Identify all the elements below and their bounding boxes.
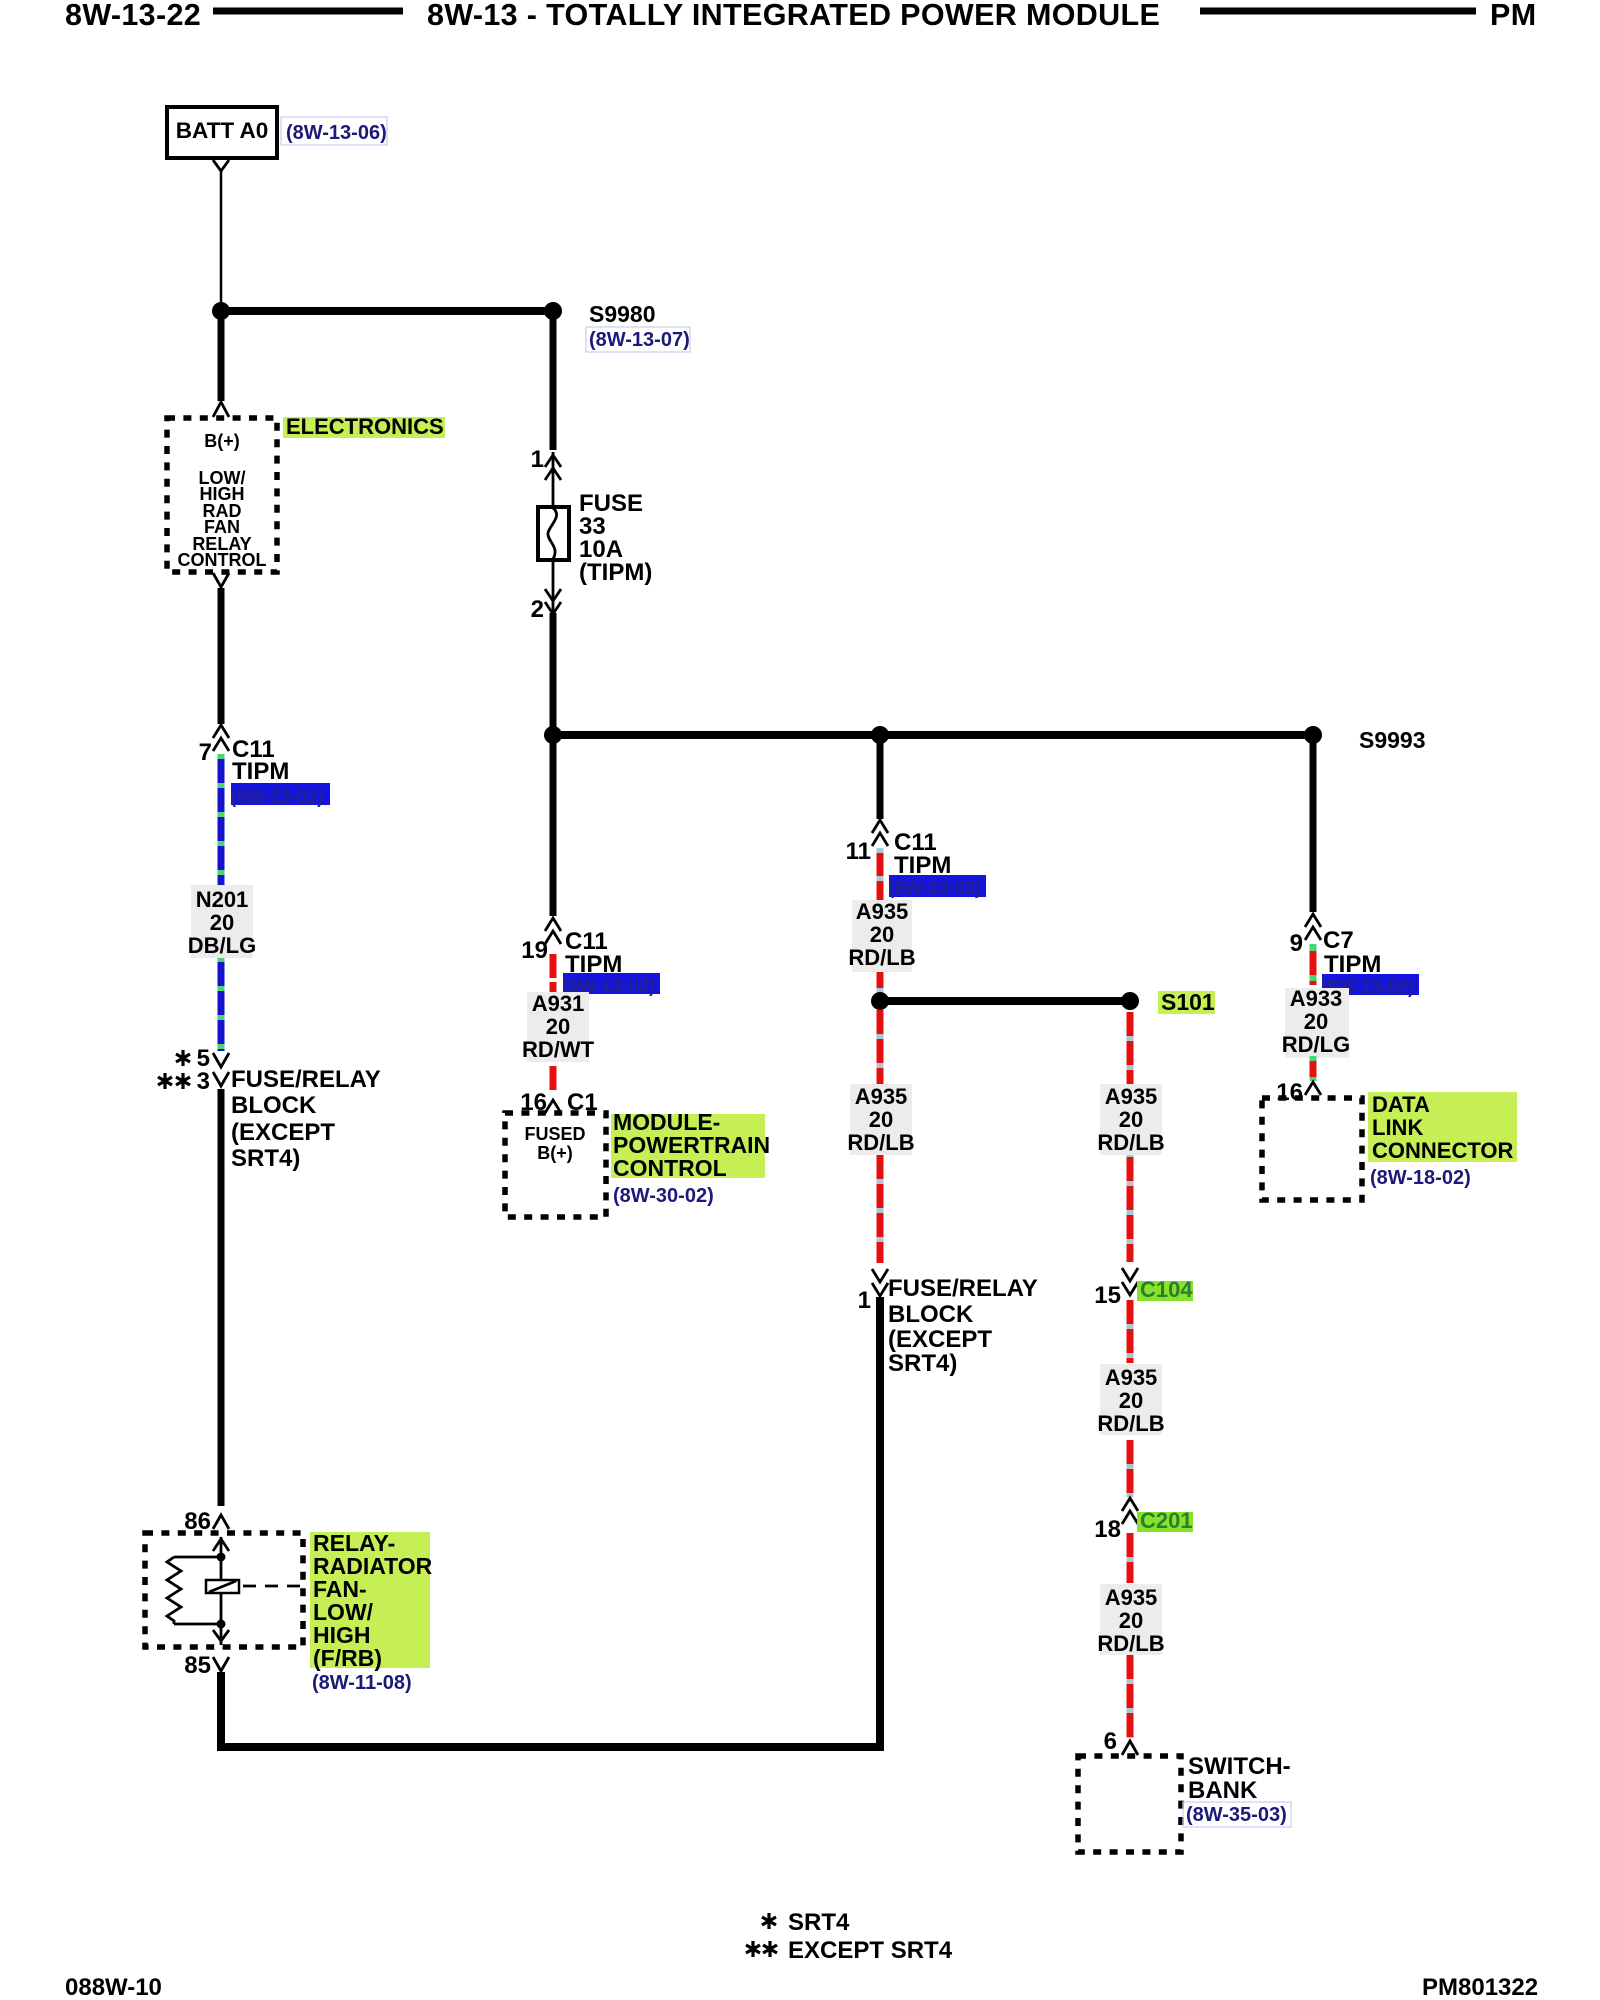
svg-text:BLOCK: BLOCK bbox=[231, 1092, 317, 1119]
label FUSE/RELAY BLOCK (EXCEPT SRT4) bbox=[888, 1275, 1038, 1377]
svg-text:A935: A935 bbox=[1105, 1365, 1158, 1390]
svg-text:20: 20 bbox=[1119, 1388, 1143, 1413]
svg-text:CONTROL: CONTROL bbox=[178, 550, 267, 570]
link badge (8W-13-02) bbox=[562, 973, 660, 996]
wire label A931 20 RD/WT bbox=[522, 991, 595, 1062]
wire N201 20 DB/LG bbox=[218, 754, 225, 1051]
svg-text:SRT4): SRT4) bbox=[231, 1145, 300, 1172]
svg-text:FUSED: FUSED bbox=[524, 1124, 585, 1144]
svg-text:BLOCK: BLOCK bbox=[888, 1301, 974, 1328]
svg-text:20: 20 bbox=[210, 910, 234, 935]
reference (8W-35-03) bbox=[1183, 1802, 1291, 1827]
svg-text:RD/LB: RD/LB bbox=[1097, 1411, 1164, 1436]
label SWITCH-BANK bbox=[1188, 1753, 1291, 1804]
chevron out of BATT box bbox=[213, 160, 229, 171]
svg-text:20: 20 bbox=[1304, 1009, 1328, 1034]
node splice S9980 bus bbox=[212, 302, 230, 320]
svg-text:C104: C104 bbox=[1140, 1277, 1193, 1302]
pin 2 bbox=[545, 560, 561, 614]
svg-text:RD/LB: RD/LB bbox=[848, 945, 915, 970]
chevron out of module bbox=[213, 573, 229, 587]
wire A935 C201 to switch bank bbox=[1127, 1533, 1134, 1583]
svg-text:A935: A935 bbox=[1105, 1084, 1158, 1109]
svg-text:TIPM: TIPM bbox=[1324, 951, 1381, 978]
fuse 33 symbol bbox=[538, 507, 569, 560]
svg-text:RD/LB: RD/LB bbox=[1097, 1130, 1164, 1155]
wire fuse/relay block to relay pin 86 bbox=[218, 1089, 225, 1506]
svg-text:1: 1 bbox=[858, 1287, 871, 1314]
svg-text:N201: N201 bbox=[196, 887, 249, 912]
relay internals bbox=[167, 1537, 303, 1645]
note * SRT4 bbox=[762, 1909, 850, 1936]
svg-text:B(+): B(+) bbox=[204, 431, 240, 451]
reference (8W-13-06) bbox=[281, 117, 387, 145]
svg-text:C201: C201 bbox=[1140, 1508, 1193, 1533]
module box DATA LINK CONNECTOR bbox=[1262, 1098, 1362, 1200]
pin 5 (SRT4) bbox=[176, 1045, 210, 1072]
svg-text:C7: C7 bbox=[1323, 927, 1354, 954]
node splice S9993 bus bbox=[544, 726, 1322, 744]
link badge (8W-13-02) bbox=[888, 875, 986, 898]
svg-text:18: 18 bbox=[1094, 1516, 1121, 1543]
svg-text:EXCEPT SRT4: EXCEPT SRT4 bbox=[788, 1937, 953, 1964]
svg-text:RD/WT: RD/WT bbox=[522, 1037, 595, 1062]
connector C201 pin 18 bbox=[1122, 1498, 1138, 1524]
svg-text:20: 20 bbox=[870, 922, 894, 947]
svg-text:RD/LB: RD/LB bbox=[1097, 1631, 1164, 1656]
svg-text:15: 15 bbox=[1094, 1282, 1121, 1309]
svg-text:A931: A931 bbox=[532, 991, 585, 1016]
svg-text:8W-13 - TOTALLY INTEGRATED POW: 8W-13 - TOTALLY INTEGRATED POWER MODULE bbox=[427, 0, 1160, 32]
svg-text:S9980: S9980 bbox=[589, 301, 656, 327]
label FUSE 33 10A (TIPM) bbox=[579, 490, 652, 586]
relay box bbox=[145, 1533, 303, 1647]
svg-text:2: 2 bbox=[531, 596, 544, 623]
svg-text:(8W-13-06): (8W-13-06) bbox=[286, 122, 387, 144]
svg-text:ELECTRONICS: ELECTRONICS bbox=[286, 414, 444, 439]
svg-text:8W-13-22: 8W-13-22 bbox=[65, 0, 201, 32]
wire from BATT to splice S9980 bbox=[220, 171, 223, 303]
wire continues to pin 6 bbox=[1127, 1655, 1134, 1738]
svg-text:088W-10: 088W-10 bbox=[65, 1974, 162, 2000]
svg-text:20: 20 bbox=[869, 1107, 893, 1132]
connector fuse/relay block pin 1 bbox=[872, 1269, 888, 1296]
svg-text:B(+): B(+) bbox=[537, 1143, 573, 1163]
wire label A935 20 RD/LB bbox=[1097, 1084, 1164, 1155]
svg-text:(8W-18-02): (8W-18-02) bbox=[1370, 1167, 1471, 1189]
connector C104 pin 15 bbox=[1122, 1268, 1138, 1295]
wire to DLC pin 16 bbox=[1310, 1056, 1317, 1081]
svg-text:85: 85 bbox=[184, 1652, 211, 1679]
svg-text:SRT4): SRT4) bbox=[888, 1350, 957, 1377]
svg-text:(8W-11-08): (8W-11-08) bbox=[312, 1672, 412, 1694]
svg-text:DB/LG: DB/LG bbox=[188, 933, 256, 958]
wire label A933 20 RD/LG bbox=[1282, 986, 1350, 1058]
wire S9993 to connector bbox=[550, 735, 557, 916]
svg-text:TIPM: TIPM bbox=[232, 758, 289, 785]
svg-text:CONTROL: CONTROL bbox=[613, 1155, 727, 1181]
label RELAY-RADIATOR FAN-LOW/HIGH (F/RB) bbox=[310, 1530, 433, 1671]
connector C11 pin 19 bbox=[545, 918, 561, 944]
module box LOW/HIGH RAD FAN RELAY CONTROL bbox=[167, 418, 277, 572]
note ** EXCEPT SRT4 bbox=[746, 1937, 953, 1964]
wire A935 C104 to C201 bbox=[1127, 1300, 1134, 1363]
svg-text:PM801322: PM801322 bbox=[1422, 1974, 1538, 2000]
svg-text:16: 16 bbox=[1276, 1079, 1303, 1106]
wire S9993 to connector C7 bbox=[1310, 735, 1317, 912]
svg-text:BATT A0: BATT A0 bbox=[176, 118, 269, 143]
svg-text:(8W-13-02): (8W-13-02) bbox=[230, 786, 323, 807]
svg-text:CONNECTOR: CONNECTOR bbox=[1372, 1138, 1513, 1163]
label DATA LINK CONNECTOR bbox=[1368, 1092, 1517, 1163]
svg-text:1: 1 bbox=[531, 446, 544, 473]
label FUSE/RELAY BLOCK (EXCEPT SRT4) bbox=[231, 1066, 381, 1172]
svg-text:RD/LG: RD/LG bbox=[1282, 1032, 1350, 1057]
reference (8W-13-07) bbox=[586, 327, 690, 352]
link badge (8W-13-02) bbox=[230, 783, 330, 807]
wire module to connector C11 pin 7 bbox=[218, 588, 225, 724]
svg-text:TIPM: TIPM bbox=[894, 852, 951, 879]
header rule right bbox=[1200, 8, 1476, 15]
svg-text:DATA: DATA bbox=[1372, 1092, 1430, 1117]
wire A931 20 RD/WT bbox=[550, 954, 557, 1090]
svg-text:S101: S101 bbox=[1161, 989, 1215, 1015]
wire relay 85 to fuse/relay block pin 1 bbox=[221, 1297, 880, 1747]
link badge (8W-13-02) bbox=[1321, 974, 1419, 997]
svg-text:9: 9 bbox=[1290, 930, 1303, 957]
svg-text:20: 20 bbox=[1119, 1608, 1143, 1633]
svg-text:A935: A935 bbox=[855, 1084, 908, 1109]
wire S9993 to connector bbox=[877, 735, 884, 819]
wire label N201 20 DB/LG bbox=[188, 885, 256, 958]
wire label A935 20 RD/LB bbox=[1097, 1584, 1164, 1656]
wire label A935 20 RD/LB bbox=[1097, 1364, 1164, 1436]
wire A935 to fuse/relay block bbox=[877, 1010, 884, 1263]
chevron into module bbox=[213, 402, 229, 417]
svg-text:(F/RB): (F/RB) bbox=[313, 1645, 382, 1671]
svg-text:BANK: BANK bbox=[1188, 1777, 1258, 1804]
svg-text:(EXCEPT: (EXCEPT bbox=[888, 1326, 992, 1353]
wire fuse to splice S9993 bbox=[550, 613, 557, 735]
module box FUSED B(+) / PCM bbox=[505, 1113, 606, 1217]
connector chevrons bbox=[545, 452, 561, 507]
svg-text:A935: A935 bbox=[1105, 1585, 1158, 1610]
svg-text:(8W-13-07): (8W-13-07) bbox=[589, 329, 690, 351]
svg-text:(8W-35-03): (8W-35-03) bbox=[1186, 1804, 1287, 1826]
connector C11 pin 7 bbox=[213, 725, 229, 751]
svg-text:FUSE/RELAY: FUSE/RELAY bbox=[888, 1275, 1038, 1302]
wire A933 20 RD/LG bbox=[1310, 944, 1317, 985]
wire A935 S101 to C104 bbox=[1127, 1012, 1134, 1262]
svg-text:A933: A933 bbox=[1290, 986, 1343, 1011]
module box SWITCH-BANK bbox=[1078, 1756, 1181, 1852]
svg-text:(8W-13-02): (8W-13-02) bbox=[888, 877, 981, 898]
svg-text:7: 7 bbox=[199, 739, 212, 766]
wire S9980 to fuse pin 1 bbox=[550, 311, 557, 450]
svg-text:LINK: LINK bbox=[1372, 1115, 1423, 1140]
battery feed BATT A0 box bbox=[167, 107, 277, 158]
label MODULE-POWERTRAIN CONTROL bbox=[611, 1109, 770, 1181]
label ELECTRONICS bbox=[283, 417, 445, 438]
svg-text:6: 6 bbox=[1104, 1728, 1117, 1755]
svg-text:3: 3 bbox=[197, 1068, 210, 1095]
wire label A935 20 RD/LB bbox=[848, 899, 915, 972]
svg-text:A935: A935 bbox=[856, 899, 909, 924]
wire A935 20 RD/LB bbox=[877, 848, 884, 993]
svg-text:PM: PM bbox=[1490, 0, 1536, 32]
header rule left bbox=[213, 8, 403, 15]
svg-text:S9993: S9993 bbox=[1359, 727, 1426, 753]
wire label A935 20 RD/LB bbox=[847, 1084, 914, 1155]
wire continues bbox=[1127, 1440, 1134, 1497]
connector C11 pin 11 bbox=[872, 820, 888, 846]
connector C7 pin 9 bbox=[1305, 914, 1321, 940]
svg-text:FUSE/RELAY: FUSE/RELAY bbox=[231, 1066, 381, 1093]
wire S9980 to electronics module bbox=[218, 311, 225, 401]
svg-text:19: 19 bbox=[521, 937, 548, 964]
svg-text:RD/LB: RD/LB bbox=[847, 1130, 914, 1155]
svg-text:11: 11 bbox=[846, 838, 871, 865]
svg-text:SRT4: SRT4 bbox=[788, 1909, 850, 1936]
splice label S101 bbox=[1158, 989, 1215, 1015]
svg-text:(8W-30-02): (8W-30-02) bbox=[613, 1185, 714, 1207]
svg-text:SWITCH-: SWITCH- bbox=[1188, 1753, 1291, 1780]
pin 3 (except SRT4) bbox=[158, 1068, 210, 1095]
svg-text:(EXCEPT: (EXCEPT bbox=[231, 1119, 335, 1146]
connector into fuse/relay block pins 5/3 bbox=[213, 1053, 229, 1086]
svg-text:20: 20 bbox=[1119, 1107, 1143, 1132]
svg-text:20: 20 bbox=[546, 1014, 570, 1039]
node splice S101 bus bbox=[871, 992, 1139, 1010]
svg-text:(TIPM): (TIPM) bbox=[579, 559, 652, 586]
